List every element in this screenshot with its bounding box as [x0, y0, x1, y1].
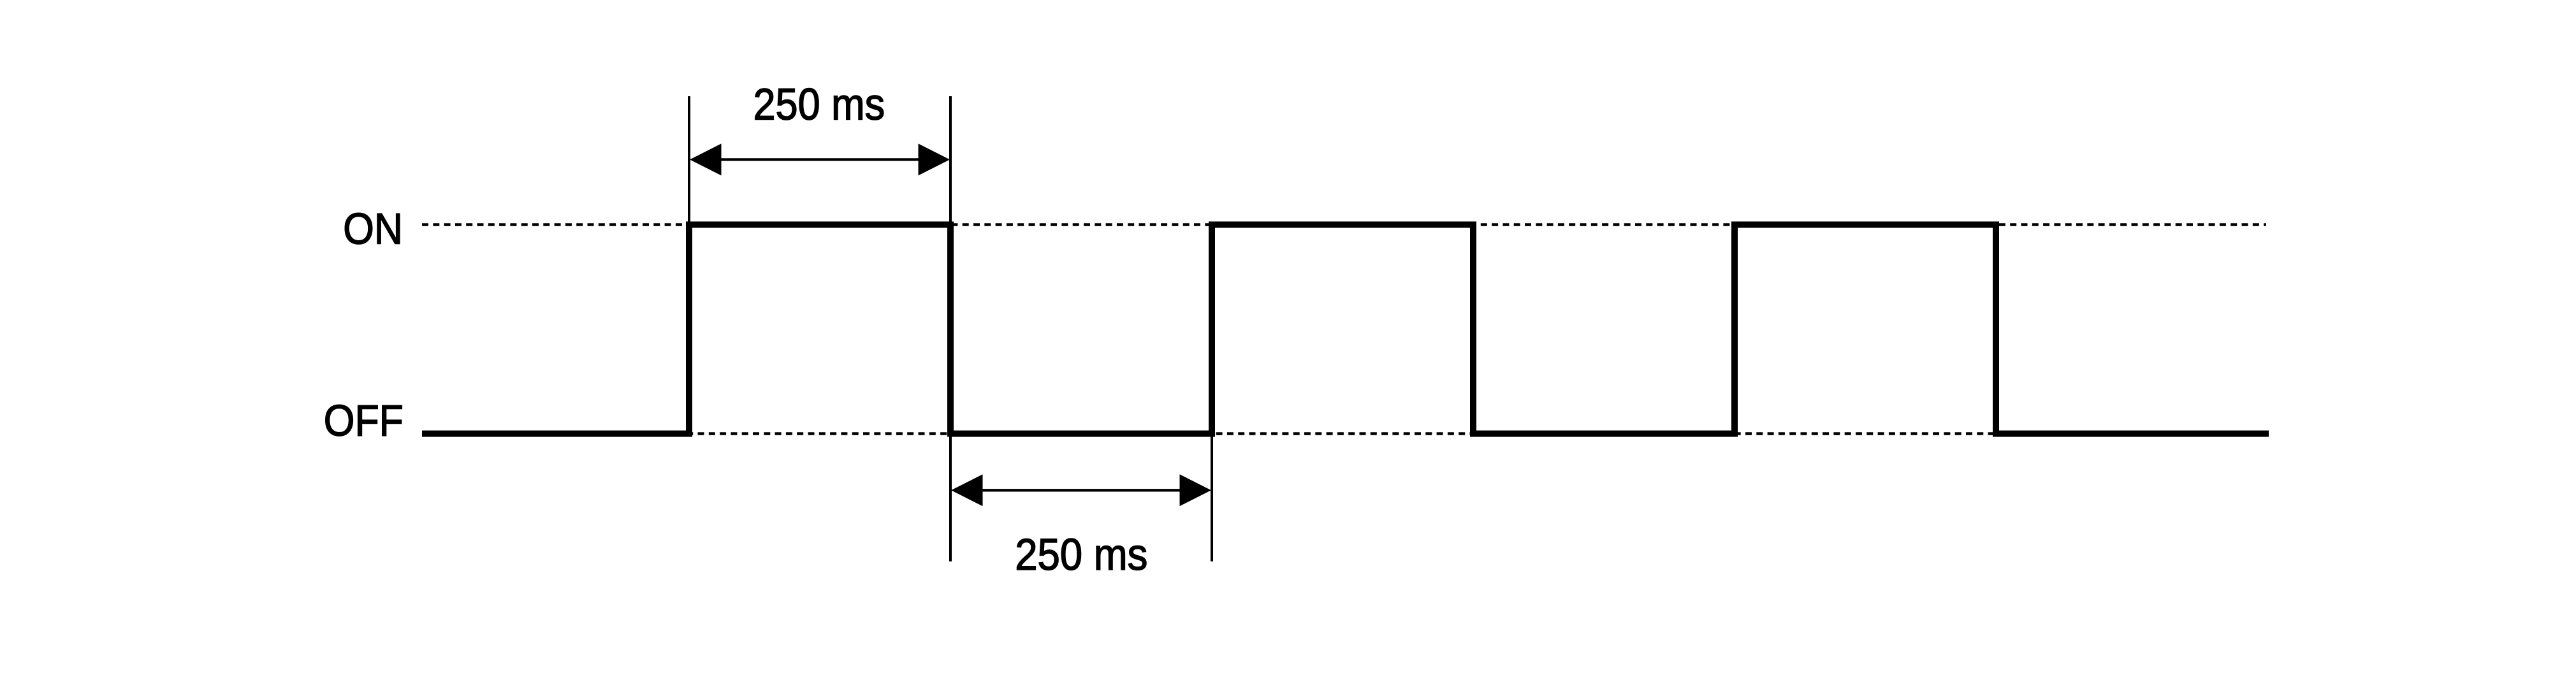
bottom dimension arrow shaft — [980, 489, 1182, 491]
top dimension arrow shaft — [719, 158, 921, 161]
bottom dimension arrowhead right — [1180, 474, 1212, 506]
svg-text:ON: ON — [343, 204, 403, 253]
bottom dimension arrowhead left — [951, 474, 983, 506]
extension line at second rising edge bottom x=1901 — [1211, 434, 1213, 561]
waveform square wave trace — [422, 225, 2269, 434]
dashed reference line OFF level — [422, 432, 2269, 435]
svg-text:250 ms: 250 ms — [753, 80, 885, 129]
top dimension arrowhead right — [919, 143, 950, 175]
extension line at first rising edge x=1081 — [688, 96, 690, 224]
extension line at first falling edge top x=1491 — [949, 96, 952, 224]
svg-text:OFF: OFF — [324, 396, 404, 445]
svg-text:250 ms: 250 ms — [1015, 530, 1147, 579]
extension line at first falling edge bottom x=1491 — [949, 434, 952, 561]
top dimension arrowhead left — [690, 143, 722, 175]
dashed reference line ON level — [422, 223, 2266, 226]
